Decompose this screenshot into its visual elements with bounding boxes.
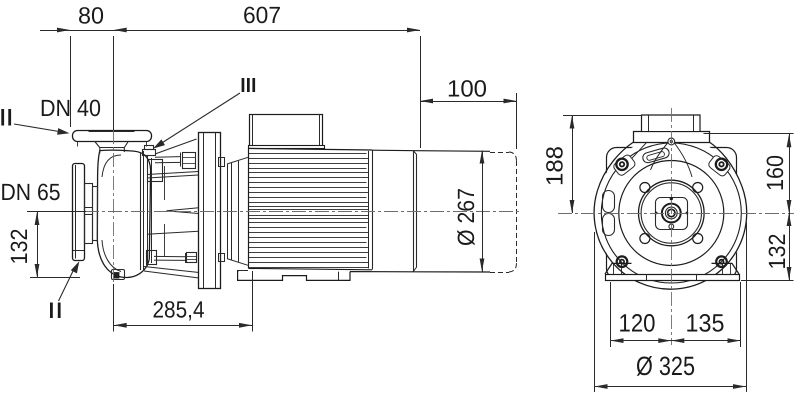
svg-text:607: 607 (243, 2, 281, 28)
svg-text:DN 65: DN 65 (1, 179, 61, 205)
svg-text:80: 80 (78, 3, 104, 29)
svg-text:132: 132 (764, 234, 790, 270)
svg-text:188: 188 (542, 146, 568, 186)
svg-text:100: 100 (447, 76, 487, 102)
svg-text:160: 160 (762, 155, 788, 191)
svg-text:Ø 267: Ø 267 (453, 188, 479, 246)
svg-text:285,4: 285,4 (153, 297, 205, 323)
svg-text:132: 132 (6, 229, 32, 265)
svg-text:135: 135 (686, 310, 725, 338)
svg-text:Ø 325: Ø 325 (636, 351, 695, 381)
svg-text:DN 40: DN 40 (40, 95, 101, 121)
svg-text:120: 120 (619, 310, 656, 338)
